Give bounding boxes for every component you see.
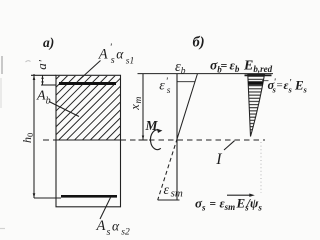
svg-text:E: E [294,78,304,93]
svg-text:α: α [112,219,120,234]
svg-text:I: I [215,151,222,168]
svg-text:a': a' [34,60,49,70]
svg-text:s: s [111,55,115,66]
svg-text:=: = [210,199,217,211]
svg-text:sm: sm [171,188,183,200]
svg-text:ε: ε [159,79,165,94]
svg-text:s: s [167,86,171,96]
svg-text:M: M [145,118,159,133]
svg-text:s: s [303,85,308,95]
svg-text:б): б) [193,35,205,51]
svg-text:α: α [116,47,124,62]
svg-text:A: A [98,47,108,63]
svg-text:ε: ε [164,183,170,198]
svg-text:s1: s1 [126,57,134,67]
svg-text:A: A [96,218,106,234]
svg-text:a): a) [43,35,54,50]
svg-text:s2: s2 [121,228,130,237]
svg-text:s: s [107,227,111,236]
svg-text:=: = [277,80,283,92]
svg-text:s: s [288,85,293,95]
svg-text:=: = [221,59,228,73]
